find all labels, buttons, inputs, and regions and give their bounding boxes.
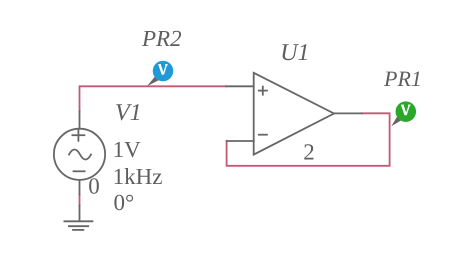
svg-text:V1: V1 (115, 100, 142, 126)
svg-text:1kHz: 1kHz (113, 164, 163, 189)
svg-text:0: 0 (88, 174, 100, 199)
svg-text:0°: 0° (114, 190, 135, 215)
svg-text:U1: U1 (280, 40, 309, 66)
svg-text:2: 2 (303, 139, 315, 164)
svg-text:PR2: PR2 (141, 26, 182, 51)
svg-text:PR1: PR1 (383, 66, 422, 91)
svg-text:1V: 1V (113, 137, 142, 162)
